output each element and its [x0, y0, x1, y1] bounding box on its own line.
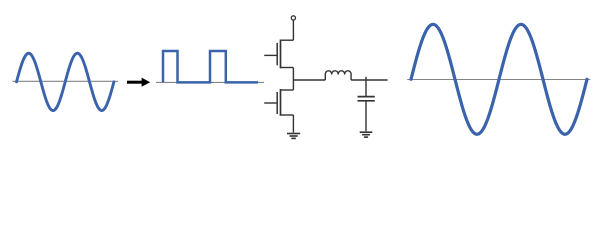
- supply terminal: [291, 16, 295, 20]
- output sine wave: [411, 24, 587, 134]
- transistor Q2 low-side MOSFET: [264, 89, 293, 116]
- inductor L1: [325, 71, 351, 80]
- transistor Q1 high-side MOSFET: [264, 40, 293, 69]
- wire Q1 source to Q2 drain: [292, 68, 294, 91]
- input sine axis: [12, 80, 118, 82]
- capacitor C1: [358, 77, 375, 132]
- output sine axis: [407, 79, 590, 81]
- PWM axis: [156, 81, 264, 83]
- PWM square wave: [163, 51, 258, 82]
- wire Q2 source to ground: [292, 115, 294, 133]
- ground below Q2: [287, 134, 300, 139]
- arrow: [127, 78, 150, 87]
- wire output node to inductor: [293, 79, 325, 81]
- wire supply to Q1 drain: [292, 20, 294, 40]
- input sine wave: [17, 53, 114, 110]
- wire inductor to output: [351, 79, 387, 81]
- ground below C1: [360, 132, 373, 137]
